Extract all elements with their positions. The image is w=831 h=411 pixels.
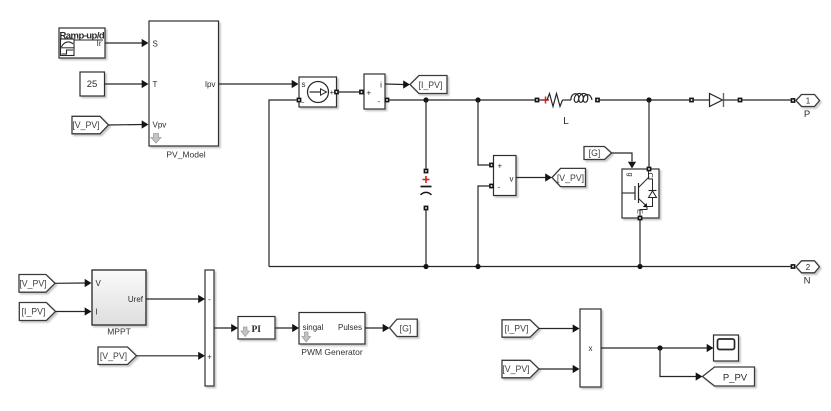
wire V_PV to sum +	[137, 352, 206, 360]
from tag V_PV (to product)	[502, 360, 539, 378]
svg-text:N: N	[804, 276, 811, 287]
svg-text:i: i	[380, 81, 382, 90]
wire product to scope	[601, 344, 714, 352]
wire V_PV to product	[539, 365, 580, 373]
wire 25 to PV_Model T	[105, 80, 149, 88]
wire Ir to PV_Model S	[105, 39, 149, 47]
svg-text:25: 25	[87, 79, 98, 90]
goto tag G	[390, 319, 418, 336]
constant block 25	[80, 72, 105, 96]
PI controller block	[238, 317, 275, 340]
svg-text:V: V	[96, 279, 102, 288]
svg-text:I: I	[96, 308, 98, 317]
svg-text:PI: PI	[252, 325, 262, 335]
wire current source - to left rail	[269, 100, 297, 267]
svg-text:-: -	[208, 295, 211, 304]
controlled current source	[297, 77, 339, 107]
wire G to IGBT gate	[612, 153, 637, 169]
wire PV_Model Ipv to controlled current source s	[219, 80, 299, 88]
wire current source + to current measurement +	[339, 91, 361, 93]
svg-text:Ipv: Ipv	[205, 80, 216, 89]
inductor L (series RL branch)	[535, 93, 600, 127]
wire v to goto tag V_PV	[516, 173, 552, 181]
svg-text:1: 1	[806, 97, 811, 106]
svg-text:-: -	[498, 183, 501, 192]
from tag V_PV (to Vpv input)	[72, 116, 109, 134]
current measurement block	[359, 74, 389, 109]
svg-text:PWM Generator: PWM Generator	[301, 347, 363, 357]
wire top bus to voltage measurement +	[478, 100, 489, 165]
svg-text:Pulses: Pulses	[338, 323, 362, 332]
svg-text:[I_PV]: [I_PV]	[505, 324, 529, 334]
output port 1 (P)	[796, 95, 820, 121]
from tag G (gate signal)	[584, 147, 612, 160]
from tag I_PV (to MPPT I)	[19, 303, 55, 321]
from tag I_PV (to product)	[502, 320, 539, 337]
svg-text:S: S	[153, 40, 158, 49]
wire IGBT E to bottom bus	[639, 220, 641, 266]
wire i to goto tag I_PV	[385, 80, 410, 88]
wire top bus to IGBT C	[648, 100, 650, 167]
goto tag I_PV	[410, 76, 447, 94]
wire sum to PI	[214, 324, 238, 332]
svg-text:[G]: [G]	[400, 323, 412, 333]
svg-text:T: T	[153, 80, 158, 89]
junction top bus / voltage measurement	[475, 97, 480, 102]
svg-text:P: P	[804, 109, 810, 120]
wire top bus from current measurement - to inductor	[389, 99, 534, 101]
svg-text:v: v	[510, 175, 514, 184]
wire diode to output port P	[742, 98, 795, 103]
from tag V_PV (to MPPT V)	[19, 275, 55, 293]
junction bottom bus / IGBT emitter	[637, 264, 642, 269]
wire PI to PWM Generator	[275, 324, 299, 332]
svg-text:s: s	[302, 80, 306, 89]
wire Pulses to goto G	[365, 324, 390, 332]
junction bottom bus / voltage measurement	[475, 264, 480, 269]
svg-text:-: -	[378, 97, 381, 106]
wire V_PV to MPPT V	[55, 279, 92, 287]
output port 2 (N)	[796, 261, 820, 287]
svg-text:-: -	[302, 98, 305, 107]
wire inductor to diode	[600, 99, 689, 101]
PWM Generator block	[299, 313, 365, 358]
wire bottom bus	[269, 266, 791, 268]
subsystem block PV_Model	[149, 21, 219, 160]
svg-text:[V_PV]: [V_PV]	[502, 364, 529, 374]
diode D	[689, 93, 742, 107]
scope block	[714, 335, 739, 361]
junction top bus / IGBT collector	[646, 97, 651, 102]
svg-text:Uref: Uref	[128, 295, 144, 304]
signal builder block Ramp-up/dc (Ir source)	[59, 28, 109, 58]
wire I_PV to product	[539, 324, 580, 332]
junction bottom bus / capacitor	[423, 264, 428, 269]
svg-text:+: +	[367, 89, 372, 98]
svg-text:[I_PV]: [I_PV]	[22, 307, 46, 317]
svg-text:[G]: [G]	[589, 148, 601, 158]
svg-text:2: 2	[806, 263, 811, 272]
MPPT block	[92, 270, 146, 337]
junction product output branch	[657, 345, 662, 350]
svg-text:+: +	[498, 162, 503, 171]
svg-text:[V_PV]: [V_PV]	[557, 173, 584, 183]
svg-text:L: L	[563, 116, 569, 127]
svg-text:g: g	[626, 173, 635, 177]
svg-text:Ir: Ir	[97, 39, 102, 48]
wire I_PV to MPPT I	[56, 307, 92, 315]
svg-text:[V_PV]: [V_PV]	[100, 351, 127, 361]
svg-text:+: +	[207, 352, 212, 361]
wire branch to goto P_PV	[660, 348, 703, 381]
sum block	[205, 270, 214, 386]
svg-text:[V_PV]: [V_PV]	[19, 278, 46, 288]
from tag V_PV (to sum +)	[98, 347, 137, 365]
wire voltage measurement - to bottom bus	[478, 186, 489, 267]
junction top bus / capacitor	[423, 97, 428, 102]
svg-text:C: C	[646, 173, 655, 179]
wire bottom bus to output port N	[791, 264, 796, 269]
voltage measurement block	[489, 156, 516, 196]
svg-text:MPPT: MPPT	[107, 327, 131, 337]
capacitor branch C	[421, 100, 432, 267]
IGBT block	[622, 167, 659, 221]
svg-text:[I_PV]: [I_PV]	[419, 80, 443, 90]
product block x	[580, 309, 601, 387]
svg-text:singal: singal	[303, 323, 324, 332]
svg-text:P_PV: P_PV	[723, 372, 748, 383]
svg-text:Vpv: Vpv	[153, 121, 167, 130]
svg-text:+: +	[330, 88, 335, 97]
wire MPPT Uref to sum -	[146, 295, 205, 303]
wire V_PV to PV_Model Vpv	[109, 120, 149, 128]
svg-text:x: x	[589, 344, 593, 353]
goto tag V_PV	[552, 168, 586, 186]
goto tag P_PV	[703, 367, 755, 386]
svg-text:[V_PV]: [V_PV]	[72, 120, 99, 130]
svg-text:PV_Model: PV_Model	[166, 150, 205, 160]
